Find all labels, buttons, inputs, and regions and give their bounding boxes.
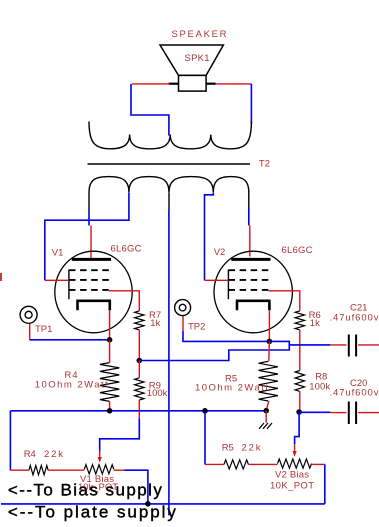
wire R7/R9 node toward C21 blue [139, 345, 289, 361]
junction dot rail/R5b drop [202, 408, 208, 414]
junction dot V2 cathode node [267, 339, 273, 345]
transformer T2 secondary winding [89, 122, 251, 149]
resistor R7 [135, 311, 144, 330]
potentiometer V1 Bias wiper arrow [98, 451, 102, 463]
resistor R5b 22k [224, 460, 248, 469]
junction dot pot V1 on rail [145, 501, 151, 507]
wire V2 grid right to R6 red [268, 291, 300, 311]
ground symbol [259, 423, 272, 429]
svg-text:TP2: TP2 [188, 322, 205, 333]
test point TP2 [175, 300, 191, 316]
resistor R4 10 ohm [100, 363, 119, 402]
svg-text:V2 Bias: V2 Bias [275, 470, 309, 481]
wire rail to R4b drop blue [9, 411, 11, 471]
svg-text:R5: R5 [222, 443, 234, 454]
transformer T2 primary winding [89, 177, 249, 210]
wire R4b left red [10, 469, 29, 471]
svg-text:TP1: TP1 [35, 324, 52, 335]
svg-text:1k: 1k [150, 318, 160, 329]
svg-text:<--To Bias supply: <--To Bias supply [8, 480, 163, 499]
test point TP1 [20, 306, 37, 323]
svg-text:.47uf600v: .47uf600v [330, 387, 379, 398]
tube V1 plate bar [72, 258, 111, 261]
wire speaker left red [132, 83, 170, 85]
wire V1 plate red [90, 226, 92, 259]
transformer T2 core [88, 163, 251, 165]
wire V2 pot right red [312, 463, 325, 465]
svg-text:100k: 100k [309, 381, 330, 392]
tube V2 grid bracket [227, 270, 229, 300]
wire center tap to plate supply rail (B+) [168, 210, 170, 515]
junction dot V1 cathode node [107, 337, 113, 343]
svg-text:22k: 22k [242, 443, 261, 454]
wire speaker right red [216, 83, 252, 85]
speaker SPK1 cone [160, 45, 223, 91]
wire UL tap right to V2 grid [205, 193, 214, 281]
wire V2 plate red [249, 226, 251, 257]
resistor R4b 22k [29, 466, 48, 475]
resistor R5 10 ohm [259, 361, 278, 401]
svg-text:6L6GC: 6L6GC [111, 244, 142, 255]
tube V1 envelope [55, 251, 132, 333]
potentiometer V2 Bias body [278, 459, 312, 468]
junction dot R4 bottom [107, 408, 113, 414]
potentiometer V2 Bias wiper arrow [293, 444, 297, 457]
capacitor C20 [330, 402, 379, 425]
primary center tap leg [168, 192, 170, 210]
wire R5b to pot red [248, 463, 277, 465]
svg-text:1k: 1k [310, 318, 320, 329]
wire V1 pot right red [114, 469, 125, 471]
wire primary left leg blue [88, 210, 90, 226]
svg-text:R4: R4 [24, 449, 36, 460]
svg-text:22k: 22k [44, 449, 63, 460]
svg-text:T2: T2 [259, 159, 270, 170]
tube V1 grid bracket [68, 270, 70, 300]
wire speaker right blue to secondary end [250, 84, 252, 124]
wire TP2 to V2 cathode node blue [183, 331, 269, 341]
junction dot R8/C20 node [296, 409, 302, 415]
wire UL tap left to V1 grid [45, 193, 129, 281]
junction dot R7/R9 node [137, 358, 143, 364]
wire R9 top red [138, 361, 140, 378]
wire V2 pot right blue down [324, 464, 326, 504]
wire R9 bottom red [138, 400, 140, 419]
wire R8 node to V2 pot wiper blue [295, 412, 300, 444]
wire ground stub red [265, 411, 267, 423]
wire R9 to V1 pot wiper blue [100, 419, 140, 451]
resistor R9 [135, 378, 144, 400]
wire R4b to pot red [48, 469, 84, 471]
tube V2 envelope [214, 251, 292, 333]
tube V2 plate bar [231, 258, 270, 261]
wire R5b left red [205, 463, 224, 465]
wire V2 grid entry red [205, 279, 229, 281]
wire R6 to R8 red [299, 330, 301, 371]
wire V1 grid entry red [45, 279, 69, 281]
wire V1 pot right blue to rail [124, 470, 147, 504]
wire R8 node to C20 blue [299, 411, 330, 413]
wire V2 cathode red [268, 310, 270, 341]
junction dot rail end ground [263, 408, 269, 414]
svg-text:10K_POT: 10K_POT [270, 480, 314, 491]
svg-text:100k: 100k [147, 388, 168, 399]
tube V1 cathode [76, 301, 111, 311]
wire R7 bottom red [138, 330, 140, 361]
wire speaker left blue to secondary tap [131, 84, 169, 136]
clipped label fragment at left edge [0, 273, 2, 281]
ground rail blue [10, 410, 266, 412]
wire V1 grid right to R7 red [109, 291, 140, 311]
potentiometer V1 Bias body [84, 465, 114, 474]
resistor R6 [295, 311, 304, 330]
resistor R8 [295, 371, 304, 392]
wire V1 cathode red [109, 310, 111, 340]
wire R5 leads red [268, 341, 271, 361]
tube V2 cathode [236, 301, 271, 311]
wire rail to R5b drop blue [204, 411, 206, 465]
svg-text:.47uf600v: .47uf600v [330, 312, 379, 323]
svg-text:10Ohm 2Watt: 10Ohm 2Watt [195, 382, 268, 393]
wire TP1 stub red [29, 324, 31, 340]
wire R4 leads red [109, 340, 111, 363]
wire bias node to C21 blue [269, 341, 330, 345]
wire TP1 to V1 cathode node blue [30, 339, 110, 341]
svg-text:V1: V1 [52, 248, 64, 259]
capacitor C21 [330, 335, 379, 357]
wire primary right leg blue [248, 207, 250, 226]
svg-text:V2: V2 [214, 247, 226, 258]
plate supply rail blue [1, 503, 325, 505]
tube V2 grid dashes [229, 270, 269, 290]
tube V1 grid dashes [69, 270, 109, 290]
svg-text:10Ohm 2Watt: 10Ohm 2Watt [35, 379, 108, 390]
svg-text:SPK1: SPK1 [185, 53, 210, 64]
wire TP2 stub red [182, 316, 184, 331]
wire R8 bottom red [299, 391, 301, 411]
svg-text:6L6GC: 6L6GC [282, 245, 313, 256]
